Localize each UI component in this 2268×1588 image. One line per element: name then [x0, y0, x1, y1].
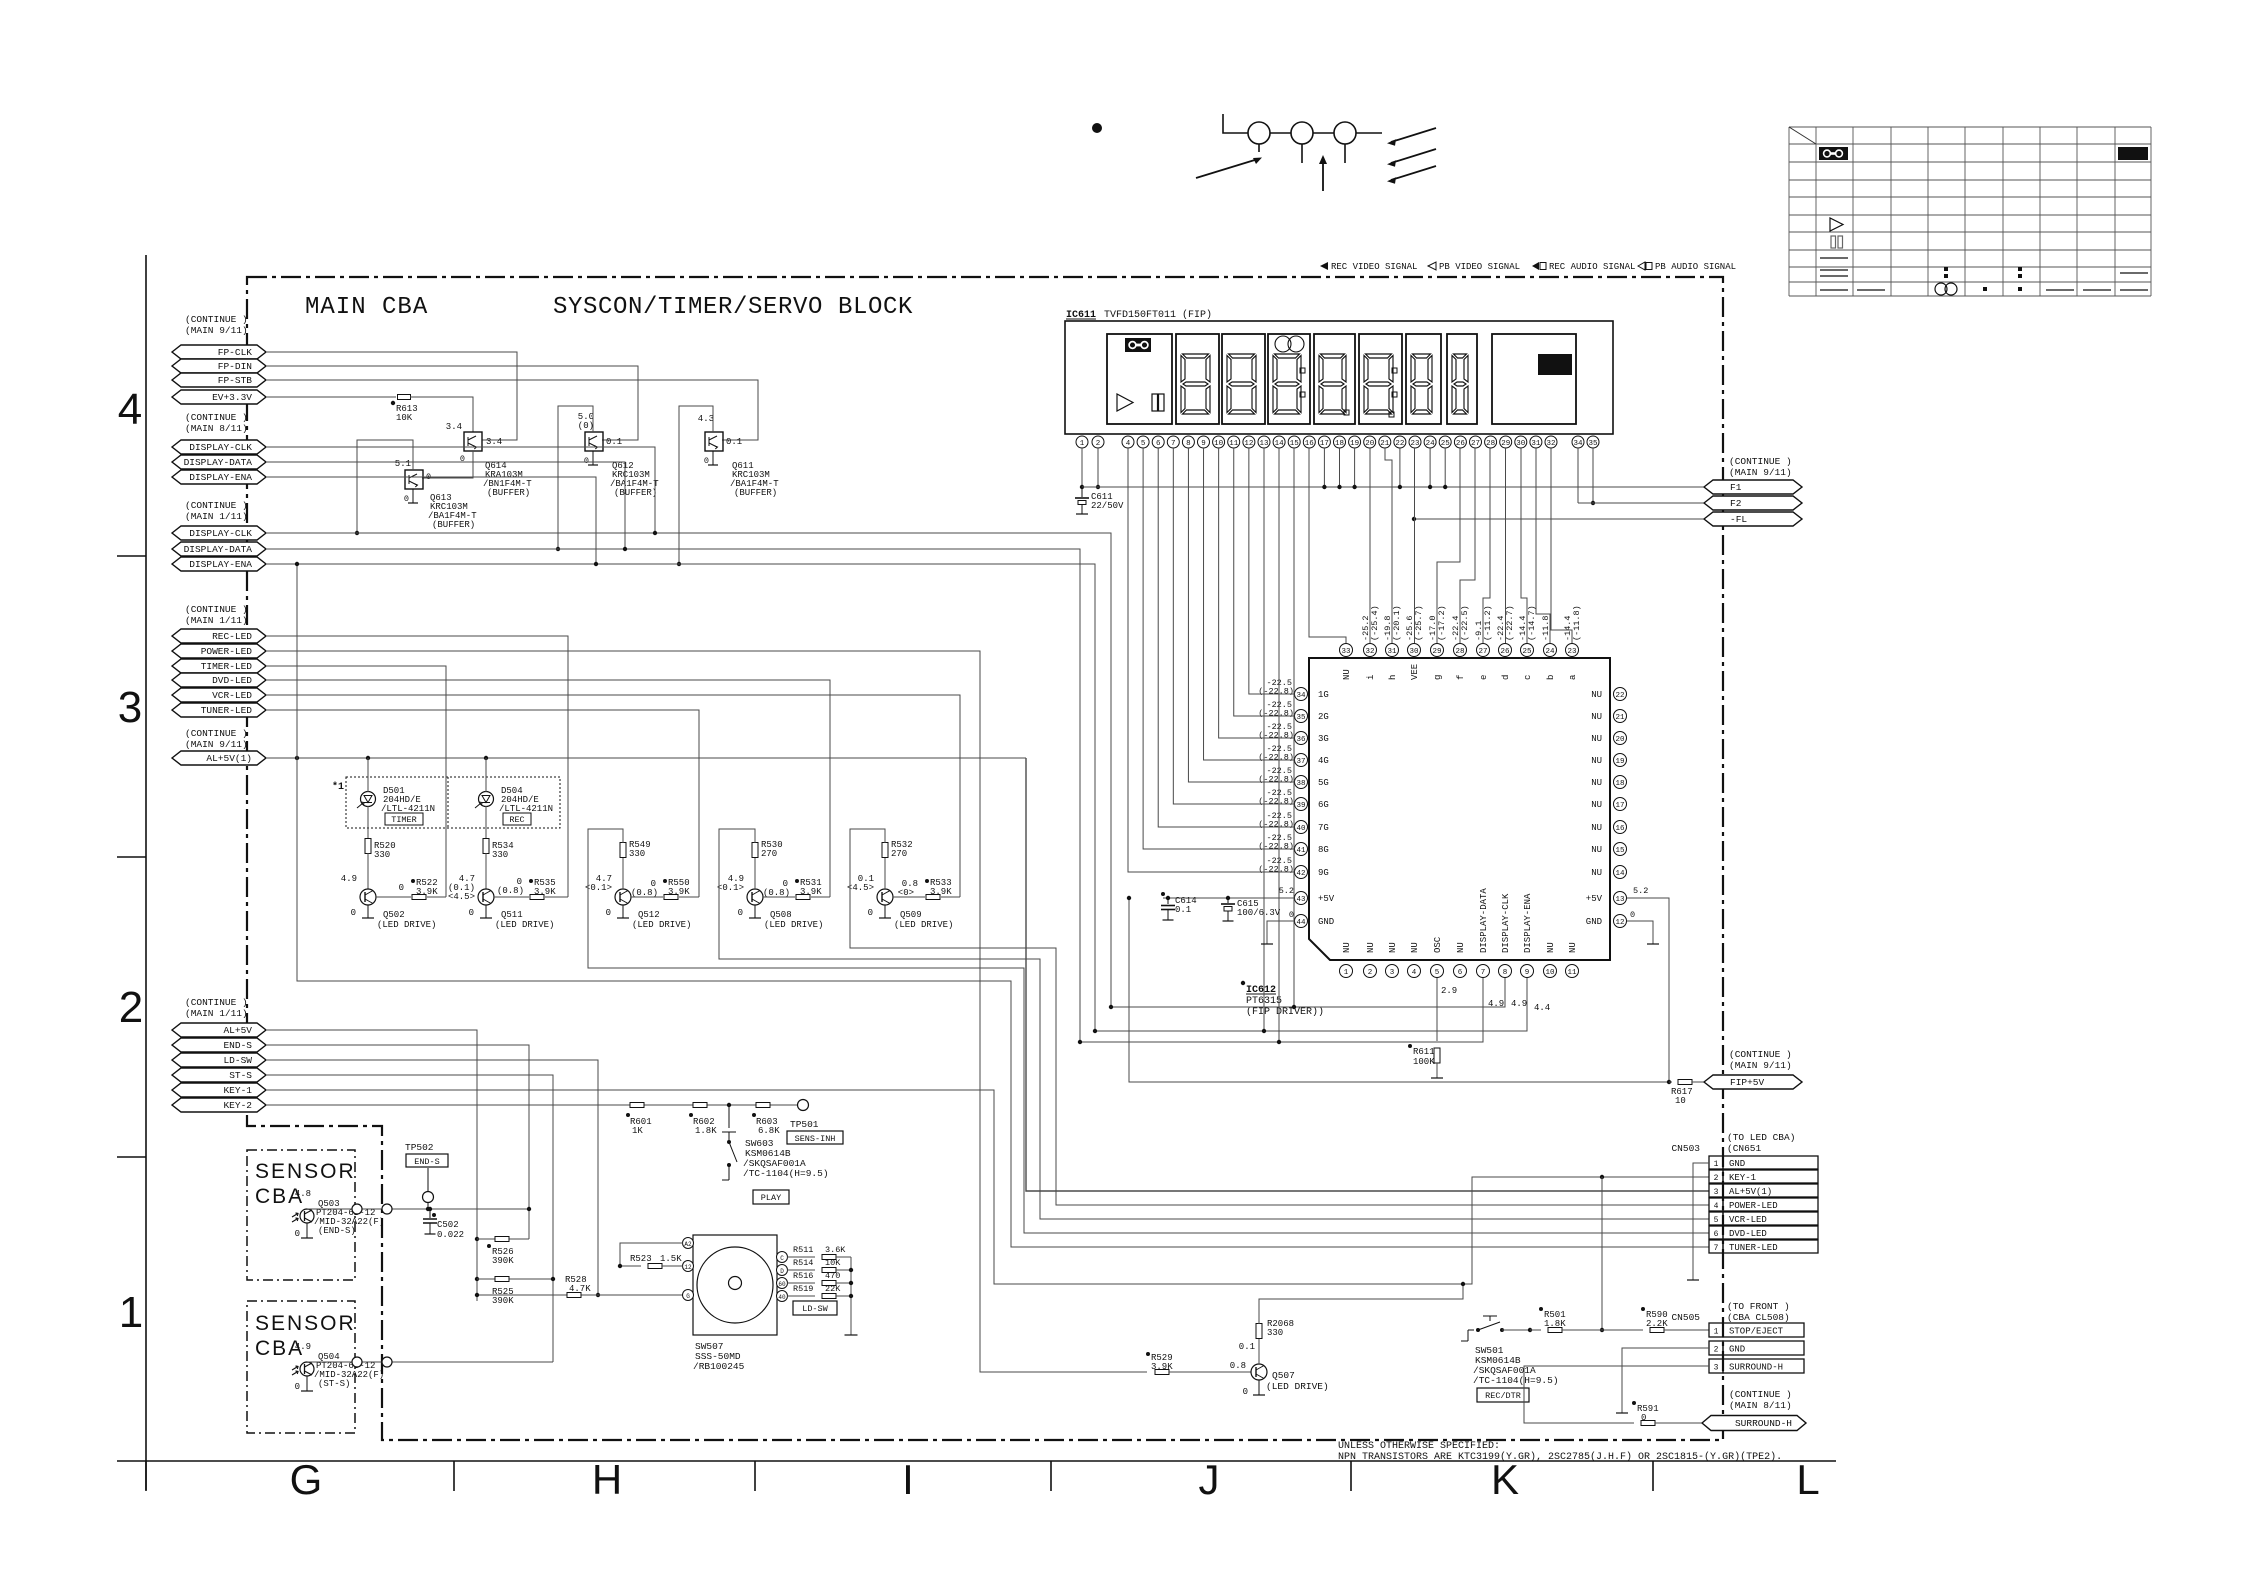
svg-text:(TO FRONT ): (TO FRONT ) — [1727, 1301, 1790, 1312]
svg-text:DISPLAY-ENA: DISPLAY-ENA — [189, 559, 252, 570]
svg-text:18: 18 — [1615, 780, 1624, 788]
svg-text:NU: NU — [1591, 868, 1602, 878]
tape path mechanism icon — [1223, 114, 1248, 133]
wire FIP pins 1,2 to F1 — [1081, 448, 1083, 487]
node DVD-LED — [172, 673, 266, 687]
FIP pins 1-35 — [1076, 436, 1088, 448]
svg-text:NU: NU — [1591, 690, 1602, 700]
svg-text:30: 30 — [1516, 440, 1526, 448]
reference dot marker — [1092, 123, 1102, 133]
svg-text:(-25.4): (-25.4) — [1370, 605, 1380, 641]
svg-text:26: 26 — [1500, 648, 1510, 656]
svg-text:(LED DRIVE): (LED DRIVE) — [894, 920, 953, 930]
test point TP501 — [798, 1100, 809, 1111]
svg-text:6G: 6G — [1318, 800, 1329, 810]
wires FIP pins 13,14,15 display bus — [1263, 448, 1265, 1031]
wire A2 jog — [620, 1243, 683, 1266]
svg-text:VCR-LED: VCR-LED — [212, 690, 252, 701]
svg-text:(MAIN 9/11): (MAIN 9/11) — [185, 325, 248, 336]
svg-text:C502: C502 — [437, 1220, 459, 1230]
svg-text:J: J — [1199, 1456, 1220, 1503]
svg-text:NU: NU — [1410, 942, 1420, 953]
svg-text:3: 3 — [118, 683, 142, 732]
svg-text:4.4: 4.4 — [1534, 1003, 1550, 1013]
svg-text:/RB100245: /RB100245 — [693, 1361, 745, 1372]
svg-text:POWER-LED: POWER-LED — [1729, 1201, 1778, 1211]
svg-text:C: C — [780, 1255, 784, 1262]
svg-text:(CONTINUE ): (CONTINUE ) — [185, 314, 248, 325]
left border scale line — [145, 255, 147, 1490]
svg-text:0: 0 — [469, 908, 474, 918]
svg-text:R516: R516 — [793, 1271, 813, 1281]
resistor R549 and collector loop Q512 — [622, 858, 624, 889]
svg-text:0: 0 — [399, 883, 404, 893]
wire FIP pin16 to IC pin33 — [1309, 448, 1346, 643]
svg-text:DISPLAY-DATA: DISPLAY-DATA — [184, 457, 253, 468]
wire resistor network common — [850, 1257, 852, 1335]
svg-text:0: 0 — [704, 456, 709, 466]
svg-text:9: 9 — [1525, 969, 1530, 977]
svg-text:32: 32 — [1365, 648, 1374, 656]
svg-text:3G: 3G — [1318, 734, 1329, 744]
bottom border scale line — [117, 1460, 1836, 1462]
svg-text:TIMER-LED: TIMER-LED — [201, 661, 253, 672]
table bottom row icons — [1820, 289, 1848, 291]
svg-text:4: 4 — [1412, 969, 1417, 977]
wire CN503 pin1 GND — [1693, 1163, 1709, 1280]
svg-text:(MAIN 1/11): (MAIN 1/11) — [185, 511, 248, 522]
svg-text:2: 2 — [119, 983, 143, 1032]
node FP-STB — [172, 373, 266, 387]
svg-text:19: 19 — [1615, 758, 1624, 766]
resistor R602 — [693, 1103, 707, 1108]
capacitor C502 — [428, 1207, 432, 1211]
svg-text:(CONTINUE ): (CONTINUE ) — [185, 997, 248, 1008]
svg-text:4.3: 4.3 — [698, 414, 714, 424]
svg-text:22: 22 — [1615, 692, 1624, 700]
svg-text:7G: 7G — [1318, 823, 1329, 833]
node KEY-2 — [172, 1098, 266, 1112]
IC612 bottom pins 1-11 — [1340, 965, 1353, 978]
svg-text:42: 42 — [1296, 870, 1305, 878]
svg-text:0.1: 0.1 — [606, 437, 622, 447]
wire KEY-1 branch to SW501 — [1601, 1177, 1603, 1330]
svg-text:NU: NU — [1591, 734, 1602, 744]
svg-text:DVD-LED: DVD-LED — [1729, 1229, 1767, 1239]
svg-text:f: f — [1456, 675, 1466, 680]
svg-text:LD-SW: LD-SW — [802, 1304, 828, 1314]
svg-text:(0.8): (0.8) — [631, 888, 658, 898]
svg-text:F2: F2 — [1730, 498, 1742, 509]
wire Q613 emitter stub — [412, 489, 414, 503]
svg-text:0.1: 0.1 — [726, 437, 742, 447]
svg-text:(-25.7): (-25.7) — [1414, 605, 1424, 641]
wire +5V rail to FIP+5V line — [1129, 898, 1669, 1082]
transistor Q512 LED drive — [615, 889, 631, 905]
svg-text:8G: 8G — [1318, 845, 1329, 855]
svg-text:26: 26 — [1456, 440, 1466, 448]
wire FP-DIN to Q612 — [266, 366, 638, 440]
transistor Q611 — [705, 432, 723, 451]
svg-text:470: 470 — [825, 1271, 840, 1281]
svg-text:4.9: 4.9 — [1511, 999, 1527, 1009]
svg-text:A2: A2 — [684, 1241, 692, 1248]
wire IC pin43 +5V with caps — [1163, 897, 1294, 899]
svg-text:GND: GND — [1729, 1159, 1745, 1169]
wire VEE to -FL — [1414, 518, 1704, 520]
svg-text:28: 28 — [1486, 440, 1495, 448]
svg-text:3.9K: 3.9K — [1151, 1362, 1173, 1372]
wire FP-STB to Q611 — [266, 380, 758, 440]
svg-text:15: 15 — [1290, 440, 1300, 448]
svg-text:5.1: 5.1 — [395, 459, 411, 469]
diode D504 REC LED — [479, 792, 494, 807]
svg-text:12: 12 — [1244, 440, 1253, 448]
transistor Q511 LED drive — [478, 889, 494, 905]
wire CN505 pin2 GND — [1622, 1348, 1709, 1413]
svg-text:(CONTINUE ): (CONTINUE ) — [1729, 456, 1792, 467]
svg-text:SENSOR: SENSOR — [255, 1160, 356, 1183]
svg-text:EV+3.3V: EV+3.3V — [212, 392, 252, 403]
svg-text:LD-SW: LD-SW — [223, 1055, 252, 1066]
svg-text:F1: F1 — [1730, 482, 1742, 493]
svg-text:END-S: END-S — [223, 1040, 252, 1051]
svg-text:(MAIN 8/11): (MAIN 8/11) — [185, 423, 248, 434]
resistor R611 on OSC — [1436, 978, 1438, 1041]
wire DISPLAY-DATA bus — [266, 549, 1080, 1042]
svg-text:Q508: Q508 — [770, 910, 792, 920]
table cassette icon — [1819, 147, 1848, 160]
svg-text:0: 0 — [351, 908, 356, 918]
svg-text:34: 34 — [1573, 440, 1583, 448]
wire Q507 collector to KEY line — [1259, 1284, 1463, 1324]
svg-text:24: 24 — [1426, 440, 1436, 448]
transistor Q612 — [585, 432, 603, 451]
wire AL+5V rail branch to TUNER loop — [297, 564, 1709, 1247]
svg-text:3.4: 3.4 — [446, 422, 462, 432]
svg-text:1.5K: 1.5K — [660, 1254, 682, 1264]
svg-text:(CONTINUE ): (CONTINUE ) — [185, 728, 248, 739]
node EV+3.3V — [172, 390, 266, 404]
switch SW603 PLAY — [728, 1105, 730, 1128]
svg-text:GND: GND — [1586, 917, 1602, 927]
wire Q508 base to DVD-LED — [266, 680, 830, 897]
svg-text:1K: 1K — [632, 1126, 643, 1136]
FIP colon dots cell5 — [1392, 368, 1397, 373]
svg-text:I: I — [902, 1456, 914, 1503]
svg-text:d: d — [1501, 675, 1511, 680]
svg-text:CN503: CN503 — [1671, 1143, 1700, 1154]
svg-text:(CN651: (CN651 — [1727, 1143, 1762, 1154]
svg-text:13: 13 — [1259, 440, 1269, 448]
svg-text:31: 31 — [1531, 440, 1541, 448]
svg-text:TP501: TP501 — [790, 1119, 819, 1130]
svg-text:23: 23 — [1567, 648, 1577, 656]
svg-text:4.9: 4.9 — [341, 874, 357, 884]
svg-text:25: 25 — [1441, 440, 1451, 448]
svg-text:G: G — [686, 1293, 690, 1300]
FIP segment assignment table — [1788, 127, 1790, 296]
svg-text:(LED DRIVE): (LED DRIVE) — [495, 920, 554, 930]
table pause icon — [1831, 236, 1836, 248]
svg-text:5G: 5G — [1318, 778, 1329, 788]
connector circles END-S — [352, 1204, 362, 1214]
svg-text:VCR-LED: VCR-LED — [1729, 1215, 1767, 1225]
svg-text:17: 17 — [1320, 440, 1329, 448]
svg-text:0: 0 — [295, 1382, 300, 1392]
svg-text:9G: 9G — [1318, 868, 1329, 878]
svg-text:PB AUDIO SIGNAL: PB AUDIO SIGNAL — [1655, 262, 1736, 272]
svg-text:4G: 4G — [1318, 756, 1329, 766]
svg-text:TUNER-LED: TUNER-LED — [201, 705, 253, 716]
svg-text:Q502: Q502 — [383, 910, 405, 920]
FIP digit cell 4 — [1314, 334, 1355, 424]
svg-text:(-17.2): (-17.2) — [1437, 605, 1447, 641]
svg-text:10K: 10K — [825, 1258, 841, 1268]
wire DISPLAY-DATA a to bus — [266, 462, 625, 549]
resistor R516 — [787, 1282, 815, 1284]
svg-text:TP502: TP502 — [405, 1142, 434, 1153]
node F1 — [1704, 480, 1802, 494]
svg-text:330: 330 — [492, 850, 508, 860]
svg-text:(LED DRIVE): (LED DRIVE) — [1266, 1381, 1329, 1392]
IC612 top pins 33-23 — [1340, 644, 1353, 657]
svg-text:25: 25 — [1522, 648, 1532, 656]
svg-text:(LED DRIVE): (LED DRIVE) — [377, 920, 436, 930]
svg-text:GND: GND — [1729, 1345, 1745, 1355]
svg-text:2: 2 — [1096, 440, 1101, 448]
svg-text:23: 23 — [1410, 440, 1420, 448]
svg-text:Q507: Q507 — [1272, 1370, 1295, 1381]
svg-text:c: c — [1523, 675, 1533, 680]
svg-text:NU: NU — [1591, 800, 1602, 810]
LD-SW boxed label — [793, 1301, 837, 1315]
svg-text:(-22.7): (-22.7) — [1505, 605, 1515, 641]
node KEY-1 — [172, 1083, 266, 1097]
svg-text:(END-S): (END-S) — [318, 1226, 356, 1236]
svg-text:REC AUDIO SIGNAL: REC AUDIO SIGNAL — [1549, 262, 1635, 272]
svg-text:STOP/EJECT: STOP/EJECT — [1729, 1327, 1784, 1337]
svg-text:3: 3 — [1390, 969, 1395, 977]
wire SW501 to CN505 pin1 — [1528, 1328, 1532, 1332]
svg-text:5.2: 5.2 — [1633, 886, 1648, 896]
svg-text:44: 44 — [1296, 919, 1306, 927]
svg-text:(LED DRIVE): (LED DRIVE) — [764, 920, 823, 930]
svg-text:PLAY: PLAY — [761, 1193, 781, 1203]
svg-text:(FIP DRIVER)): (FIP DRIVER)) — [1246, 1006, 1324, 1018]
svg-text:NPN TRANSISTORS ARE KTC3199(Y.: NPN TRANSISTORS ARE KTC3199(Y.GR), 2SC27… — [1338, 1451, 1782, 1463]
motor pin 12 — [683, 1261, 694, 1272]
svg-text:8: 8 — [1503, 969, 1508, 977]
svg-text:390K: 390K — [492, 1256, 514, 1266]
svg-text:2: 2 — [1714, 1174, 1719, 1183]
wires FIP pins 4-12 to IC612 1G-9G — [1128, 448, 1294, 872]
svg-text:D: D — [780, 1268, 784, 1275]
SENSOR CBA box 2 — [247, 1301, 355, 1433]
svg-text:20: 20 — [1615, 736, 1625, 744]
svg-text:10: 10 — [1545, 969, 1555, 977]
wire DISPLAY-CLK bus — [266, 533, 1111, 1007]
wire AL+5V(1) to CN503 pin3 — [1026, 758, 1709, 1191]
legend REC/PB video audio signal — [1320, 262, 1328, 270]
svg-text:DISPLAY-CLK: DISPLAY-CLK — [189, 528, 252, 539]
FIP digit cell 6 — [1406, 334, 1441, 424]
svg-text:35: 35 — [1588, 440, 1598, 448]
svg-text:330: 330 — [1267, 1328, 1283, 1338]
resistor R530 and collector loop Q508 — [754, 858, 756, 889]
svg-text:NU: NU — [1568, 942, 1578, 953]
loading switch motor SW507 — [693, 1235, 777, 1335]
svg-text:20: 20 — [1365, 440, 1375, 448]
resistor R534 — [485, 806, 487, 839]
svg-text:NU: NU — [1342, 942, 1352, 953]
svg-text:41: 41 — [1296, 847, 1306, 855]
svg-text:TIMER: TIMER — [391, 815, 417, 825]
svg-text:NU: NU — [1456, 942, 1466, 953]
svg-text:NU: NU — [1591, 712, 1602, 722]
svg-text:FP-STB: FP-STB — [218, 375, 253, 386]
resistor R528 — [477, 1294, 683, 1296]
node END-S — [172, 1038, 266, 1052]
svg-text:5.2: 5.2 — [1279, 886, 1294, 896]
svg-text:18: 18 — [1335, 440, 1344, 448]
svg-text:0: 0 — [606, 908, 611, 918]
svg-text:0: 0 — [738, 908, 743, 918]
wire DISPLAY-ENA bus — [266, 564, 1095, 1031]
svg-text:REC-LED: REC-LED — [212, 631, 252, 642]
svg-text:13: 13 — [1615, 896, 1625, 904]
svg-text:<4.5>: <4.5> — [448, 892, 475, 902]
resistor R526 — [477, 1238, 529, 1240]
svg-text:32: 32 — [1546, 440, 1555, 448]
svg-text:1: 1 — [1080, 440, 1085, 448]
svg-text:0: 0 — [868, 908, 873, 918]
table play icon — [1830, 218, 1843, 231]
svg-text:(CONTINUE ): (CONTINUE ) — [1729, 1049, 1792, 1060]
svg-text:<0.1>: <0.1> — [717, 883, 744, 893]
svg-text:+5V: +5V — [1318, 894, 1335, 904]
svg-text:5: 5 — [1141, 440, 1146, 448]
svg-text:(0.8): (0.8) — [763, 888, 790, 898]
svg-text:DISPLAY-DATA: DISPLAY-DATA — [184, 544, 253, 555]
svg-text:+5V: +5V — [1586, 894, 1603, 904]
wire Q512 base to TUNER-LED — [266, 710, 699, 897]
FIP digit cell 5 — [1359, 334, 1402, 424]
svg-text:a: a — [1568, 674, 1578, 680]
FIP digit cell 1 — [1176, 334, 1219, 424]
svg-text:MAIN CBA: MAIN CBA — [305, 294, 428, 321]
FIP status cell — [1107, 334, 1172, 424]
svg-text:0: 0 — [295, 1229, 300, 1239]
svg-text:3: 3 — [1714, 1188, 1719, 1197]
transistor Q613 — [405, 470, 423, 489]
svg-text:6: 6 — [1714, 1230, 1719, 1239]
svg-text:14: 14 — [1615, 870, 1625, 878]
svg-text:TUNER-LED: TUNER-LED — [1729, 1243, 1778, 1253]
FIP reel icons — [1275, 336, 1291, 352]
svg-text:(TO LED CBA): (TO LED CBA) — [1727, 1132, 1795, 1143]
resistor R514 — [787, 1269, 815, 1271]
node F2 — [1704, 496, 1802, 510]
wire FIP pins 34,35 to F2 — [1577, 448, 1579, 503]
svg-text:1G: 1G — [1318, 690, 1329, 700]
svg-text:4: 4 — [1126, 440, 1131, 448]
node DISPLAY-CLK a — [172, 440, 266, 454]
svg-text:(CONTINUE ): (CONTINUE ) — [185, 500, 248, 511]
wire staircase FIP26-32 to IC29-23 — [1437, 448, 1460, 643]
node DISPLAY-CLK b — [172, 526, 266, 540]
wire ST-S to sensor — [266, 1075, 553, 1362]
svg-text:(MAIN 8/11): (MAIN 8/11) — [1729, 1400, 1792, 1411]
wire D504 anode — [485, 758, 487, 792]
resistor R590 — [1650, 1328, 1664, 1333]
capacitor C614 — [1166, 896, 1170, 900]
svg-text:19: 19 — [1350, 440, 1359, 448]
svg-text:(MAIN 1/11): (MAIN 1/11) — [185, 1008, 248, 1019]
svg-text:100/6.3V: 100/6.3V — [1237, 908, 1281, 918]
svg-text:(BUFFER): (BUFFER) — [487, 488, 530, 498]
svg-text:NU: NU — [1591, 778, 1602, 788]
svg-text:DISPLAY-CLK: DISPLAY-CLK — [189, 442, 252, 453]
svg-text:NU: NU — [1366, 942, 1376, 953]
FIP digit cell 2 — [1222, 334, 1265, 424]
node -FL — [1704, 512, 1802, 526]
svg-text:0.022: 0.022 — [437, 1230, 464, 1240]
svg-text:(MAIN 9/11): (MAIN 9/11) — [1729, 1060, 1792, 1071]
FIP right cell with block — [1492, 334, 1576, 424]
node FP-CLK — [172, 345, 266, 359]
transistor Q507 LED drive — [1251, 1364, 1267, 1380]
svg-text:OSC: OSC — [1433, 936, 1443, 953]
resistor R511 — [787, 1256, 815, 1258]
svg-text:2: 2 — [1368, 969, 1373, 977]
svg-text:30: 30 — [1409, 648, 1419, 656]
svg-text:4: 4 — [1714, 1202, 1719, 1211]
svg-text:4.7K: 4.7K — [569, 1284, 591, 1294]
svg-text:7: 7 — [1481, 969, 1486, 977]
svg-text:NU: NU — [1591, 845, 1602, 855]
wire FIP pin20 to IC pin32 — [1369, 448, 1371, 643]
svg-text:4.8: 4.8 — [295, 1189, 311, 1199]
svg-text:0.1: 0.1 — [1175, 905, 1191, 915]
wire Q614 emitter to Q613 — [422, 451, 473, 478]
svg-text:7: 7 — [1714, 1244, 1719, 1253]
svg-text:1: 1 — [119, 1288, 143, 1337]
resistor R532 and collector loop Q509 — [884, 858, 886, 889]
svg-text:37: 37 — [1296, 758, 1305, 766]
FIP digit cell 3 — [1268, 334, 1310, 424]
svg-text:16: 16 — [1615, 825, 1625, 833]
node DISPLAY-DATA a — [172, 455, 266, 469]
svg-text:15: 15 — [1615, 847, 1625, 855]
svg-text:DISPLAY-ENA: DISPLAY-ENA — [189, 472, 252, 483]
svg-text:(MAIN 9/11): (MAIN 9/11) — [185, 739, 248, 750]
motor pin 60 — [777, 1278, 788, 1289]
svg-text:NU: NU — [1546, 942, 1556, 953]
svg-text:POWER-LED: POWER-LED — [201, 646, 253, 657]
motor pin C — [777, 1252, 788, 1263]
svg-text:5: 5 — [1714, 1216, 1719, 1225]
capacitor C615 — [1226, 896, 1230, 900]
svg-text:24: 24 — [1545, 648, 1555, 656]
node DISPLAY-ENA b — [172, 557, 266, 571]
wire AL+5V flag to rail — [266, 1030, 477, 1301]
wire END-S to sensor — [266, 1045, 529, 1239]
svg-text:REC: REC — [509, 815, 524, 825]
svg-text:3.4: 3.4 — [486, 437, 502, 447]
svg-text:0: 0 — [404, 494, 409, 504]
svg-text:/TC-1104(H=9.5): /TC-1104(H=9.5) — [743, 1168, 829, 1179]
